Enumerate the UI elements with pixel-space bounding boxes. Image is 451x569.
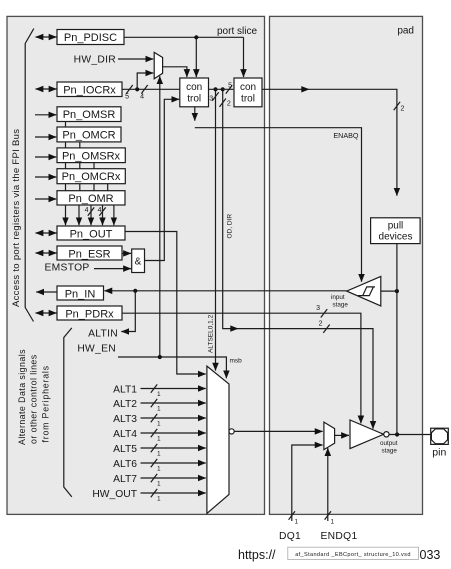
wire mux to output mux <box>234 430 322 432</box>
svg-text:ENABQ: ENABQ <box>333 131 359 140</box>
register Pn_PDRx <box>57 306 122 320</box>
wire Pn_OMR input arrow <box>35 198 56 200</box>
mux ALT output multiplexer <box>207 366 234 513</box>
svg-text:Pn_ESR: Pn_ESR <box>68 248 110 260</box>
wire Pn_OMCR input arrow <box>35 136 56 138</box>
watermark <box>238 548 440 562</box>
svg-text:3: 3 <box>209 96 213 103</box>
svg-text:1: 1 <box>157 481 161 488</box>
svg-text:Pn_IOCRx: Pn_IOCRx <box>63 84 116 96</box>
wire Pn_IOCRx bus bidir arrow <box>36 88 57 90</box>
svg-text:Pn_OUT: Pn_OUT <box>70 228 113 240</box>
label ALT4 <box>113 429 137 440</box>
svg-text:Pn_OMR: Pn_OMR <box>68 193 113 205</box>
label ALT3 <box>113 414 137 425</box>
svg-text:1: 1 <box>157 391 161 398</box>
svg-text:Pn_OMCR: Pn_OMCR <box>62 130 115 142</box>
svg-text:Access to port registers via t: Access to port registers via the FPI Bus <box>11 129 22 307</box>
svg-text:Pn_IN: Pn_IN <box>65 288 96 300</box>
svg-text:2: 2 <box>227 101 231 108</box>
svg-text:DQ1: DQ1 <box>279 531 301 542</box>
svg-text:2: 2 <box>401 106 405 113</box>
wire Pn_OMSRx down chain <box>93 163 95 191</box>
svg-text:Pn_OMCRx: Pn_OMCRx <box>62 171 121 183</box>
svg-text:HW_OUT: HW_OUT <box>92 489 137 500</box>
wire Pn_PDISC to control blocks <box>124 35 244 77</box>
mux output 2to1 <box>324 422 335 450</box>
label EMSTOP <box>45 262 90 273</box>
register Pn_OMCRx <box>57 169 125 184</box>
label ALT6 <box>113 459 137 470</box>
wire Pn_OMSRx input arrow <box>35 156 56 158</box>
svg-text:ENDQ1: ENDQ1 <box>321 531 358 542</box>
label ALTSEL0,1,2 <box>208 314 215 353</box>
svg-text:msb: msb <box>230 358 243 365</box>
wire ENDQ1 <box>321 448 358 542</box>
wire ENABQ control to input stage <box>195 107 362 282</box>
svg-text:1: 1 <box>295 519 299 526</box>
svg-text:output: output <box>380 440 398 447</box>
svg-text:1: 1 <box>157 451 161 458</box>
svg-text:ALT1: ALT1 <box>113 385 137 396</box>
svg-text:Pn_PDRx: Pn_PDRx <box>65 308 114 320</box>
port slice box <box>7 16 265 514</box>
wire ALT6 input <box>141 459 206 473</box>
register Pn_PDISC <box>57 30 124 45</box>
svg-text:4: 4 <box>140 94 144 101</box>
peripheral signals bracket <box>17 328 72 497</box>
svg-text:2: 2 <box>319 321 323 328</box>
wire AND gate to control <box>145 99 180 260</box>
svg-text:pad: pad <box>397 26 414 37</box>
svg-text:ALTSEL0,1,2: ALTSEL0,1,2 <box>208 314 215 353</box>
label ALT5 <box>113 444 137 455</box>
gate AND <box>132 249 145 273</box>
wire ALT1 input <box>141 384 206 398</box>
svg-text:1: 1 <box>157 466 161 473</box>
label ALT2 <box>113 399 137 410</box>
svg-text:pull: pull <box>388 221 404 232</box>
wire Pn_OMCRx down chain <box>107 184 109 191</box>
register Pn_OMR <box>57 191 125 205</box>
svg-text:devices: devices <box>379 232 413 243</box>
svg-text:1: 1 <box>157 421 161 428</box>
wire ALT4 input <box>141 429 206 443</box>
svg-text:1: 1 <box>157 406 161 413</box>
wire ALT2 input <box>141 399 206 413</box>
svg-text:ALT6: ALT6 <box>113 459 137 470</box>
wire input stage output <box>381 289 399 293</box>
footer file reference box <box>288 547 419 559</box>
svg-text:ALT7: ALT7 <box>113 474 137 485</box>
svg-text:&: & <box>135 257 142 268</box>
svg-text:Alternate Data signals: Alternate Data signals <box>17 349 27 445</box>
wire Pn_OMSR input arrow <box>35 114 56 116</box>
svg-text:5: 5 <box>125 94 129 101</box>
svg-text:con: con <box>186 82 202 93</box>
svg-text:1: 1 <box>157 496 161 503</box>
wire EMSTOP to AND gate <box>94 268 131 270</box>
wire output mux to output stage <box>335 434 349 436</box>
svg-text:OD, DIR: OD, DIR <box>227 214 234 239</box>
wire ALTSEL control to mux select <box>209 87 218 370</box>
label HW_OUT <box>92 489 137 500</box>
svg-text:3: 3 <box>316 305 320 312</box>
wire OD,DIR control to output stage <box>220 87 374 429</box>
wire Pn_OMSR down chain <box>65 122 67 192</box>
wire control2 to pull devices <box>262 86 405 196</box>
svg-text:con: con <box>240 82 256 93</box>
wire DQ1 <box>279 445 323 542</box>
wire Pn_IOCRx to control <box>122 85 179 101</box>
wire HW_OUT input <box>141 489 206 503</box>
wire ALT3 input <box>141 414 206 428</box>
svg-text:Pn_PDISC: Pn_PDISC <box>64 32 117 44</box>
svg-text:1: 1 <box>331 519 335 526</box>
register Pn_OUT <box>57 226 125 240</box>
svg-text:ALT2: ALT2 <box>113 399 137 410</box>
label ALT7 <box>113 474 137 485</box>
FPI bus line <box>11 29 34 322</box>
svg-text:Pn_OMSRx: Pn_OMSRx <box>62 150 121 162</box>
svg-text:4: 4 <box>85 207 89 214</box>
svg-text:af_Standard _EBCport_ structur: af_Standard _EBCport_ structure_10.vsd <box>295 552 411 558</box>
svg-text:ALT3: ALT3 <box>113 414 137 425</box>
svg-text:port slice: port slice <box>217 26 257 37</box>
op control block 1 <box>180 78 209 107</box>
register Pn_OMSR <box>57 107 121 122</box>
wire Pn_IOCRx branch to mux <box>137 73 153 89</box>
label ALT1 <box>113 385 137 396</box>
wire Pn_ESR bus bidir arrow <box>36 252 57 254</box>
svg-text:ALT5: ALT5 <box>113 444 137 455</box>
pad box <box>270 16 423 514</box>
label HW_DIR <box>74 55 116 66</box>
svg-text:stage: stage <box>333 301 349 308</box>
svg-text:Pn_OMSR: Pn_OMSR <box>63 109 116 121</box>
svg-text:trol: trol <box>187 93 201 104</box>
register Pn_OMCR <box>57 127 121 142</box>
mux direction multiplexer <box>154 52 162 78</box>
wire Pn_IN to bus arrow <box>36 291 57 293</box>
wire HW_DIR to mux <box>118 58 153 60</box>
wire Pn_PDRx to output stage <box>122 305 361 423</box>
pull devices <box>371 218 421 244</box>
output stage driver <box>350 420 398 455</box>
register Pn_IOCRx <box>57 82 122 97</box>
svg-text:033: 033 <box>420 548 441 562</box>
svg-text:HW_DIR: HW_DIR <box>74 55 116 66</box>
wire Pn_PDISC bus bidir arrow <box>36 36 57 38</box>
svg-text:or other control lines: or other control lines <box>29 354 39 444</box>
input stage receiver <box>331 276 381 308</box>
svg-text:EMSTOP: EMSTOP <box>45 262 90 273</box>
wire direction mux to control <box>163 67 187 77</box>
wire Pn_ESR to AND gate <box>122 252 131 254</box>
svg-text:1: 1 <box>157 436 161 443</box>
wire ALT5 input <box>141 444 206 458</box>
wire Pn_PDRx bus bidir arrow <box>36 312 57 314</box>
wire Pn_OMCRx input arrow <box>35 176 56 178</box>
svg-text:https://: https:// <box>238 548 276 562</box>
register Pn_IN <box>57 286 104 300</box>
pin pad <box>431 428 449 458</box>
register Pn_ESR <box>57 246 122 260</box>
svg-text:ALT4: ALT4 <box>113 429 137 440</box>
label OD,DIR <box>227 214 234 239</box>
svg-text:ALTIN: ALTIN <box>88 329 118 340</box>
svg-text:trol: trol <box>241 93 255 104</box>
wire input stage to Pn_IN <box>104 289 346 293</box>
svg-text:input: input <box>331 294 345 301</box>
wire pull devices to pad line <box>396 244 398 435</box>
svg-text:HW_EN: HW_EN <box>77 344 116 355</box>
svg-text:5: 5 <box>228 83 232 90</box>
wire Pn_OUT to output mux <box>125 232 206 375</box>
op control block 2 <box>234 78 262 107</box>
wire Pn_OUT bus bidir arrow <box>36 232 57 234</box>
register Pn_OMSRx <box>57 148 125 163</box>
svg-text:4: 4 <box>98 207 102 214</box>
wire HW_EN to msb select <box>118 355 242 378</box>
wire ALT7 input <box>141 474 206 488</box>
label ALTIN <box>88 329 118 340</box>
wire Pn_OMCR down chain <box>79 142 81 191</box>
svg-text:pin: pin <box>432 446 446 458</box>
svg-text:stage: stage <box>382 448 398 455</box>
wire Pn_OMR to Pn_OUT arrows <box>66 205 114 225</box>
wire output stage to pin <box>389 432 431 436</box>
wire HW_EN branch to direction mux select <box>159 76 161 357</box>
wire control to control 5-bit <box>209 83 234 94</box>
label HW_EN <box>77 344 116 355</box>
wire branch to ALTIN <box>121 291 135 332</box>
svg-text:from Peripherals: from Peripherals <box>41 365 51 442</box>
